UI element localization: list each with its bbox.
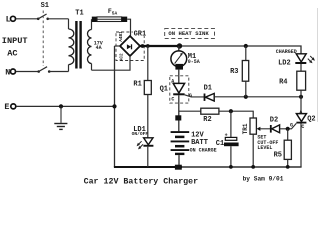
wire positive rail thick segment — [140, 45, 182, 47]
wire negative vertical line — [114, 46, 116, 167]
diode D1 — [204, 93, 215, 101]
resistor R4 — [297, 71, 306, 90]
svg-text:TR1: TR1 — [242, 123, 249, 134]
wire rail to M1 — [178, 46, 180, 51]
terminal N — [5, 68, 15, 78]
svg-text:R4: R4 — [279, 79, 287, 87]
svg-text:4A: 4A — [96, 45, 102, 51]
svg-text:E: E — [4, 102, 9, 112]
wire R1 to LD1 — [147, 95, 149, 138]
SCR Q2 — [296, 114, 306, 124]
wire L to switch — [16, 18, 38, 20]
svg-text:Car 12V Battery Charger: Car 12V Battery Charger — [84, 176, 199, 186]
svg-text:R2: R2 — [203, 116, 211, 124]
ammeter M1 — [171, 51, 187, 67]
wire R5 top — [287, 129, 289, 140]
resistor R3 — [242, 46, 248, 97]
svg-text:C: C — [301, 124, 304, 130]
svg-text:C1: C1 — [216, 140, 224, 148]
battery minus terminal pad — [175, 165, 182, 170]
bridge GR1 dashed box — [116, 32, 144, 61]
heat sink note box — [165, 29, 215, 39]
svg-text:ON CHARGE: ON CHARGE — [190, 148, 217, 154]
battery plus terminal pad — [175, 115, 181, 120]
svg-text:Q1: Q1 — [160, 86, 168, 94]
LED LD2 light arrows — [308, 56, 315, 63]
svg-text:R1: R1 — [133, 80, 141, 88]
wire C1 bottom to rail — [230, 146, 232, 167]
wire node to Q2 anode — [300, 97, 302, 114]
svg-text:AC: AC — [7, 48, 17, 58]
ground — [54, 106, 67, 129]
wire positive rail thin segment — [182, 46, 301, 54]
svg-text:GR1: GR1 — [134, 30, 147, 38]
wire M1 to Q1 — [178, 70, 180, 84]
svg-text:ON/OFF: ON/OFF — [132, 131, 149, 137]
svg-text:CHARGED: CHARGED — [276, 49, 297, 55]
wire Q1 gate to D1 — [185, 95, 204, 97]
junction C1 at rail — [229, 165, 233, 169]
wire rail to R1 — [147, 46, 149, 81]
trimmer TR1 — [250, 118, 270, 134]
terminal E — [4, 102, 15, 112]
switch S1 bottom pole — [37, 67, 50, 73]
svg-text:T1: T1 — [75, 10, 83, 18]
junction at R1 top — [146, 44, 150, 48]
bridge GR1 label — [133, 29, 150, 38]
svg-text:ON HEAT SINK: ON HEAT SINK — [168, 30, 209, 37]
wire R5 bottom to rail — [287, 159, 289, 167]
fuse F 5A label — [108, 8, 118, 16]
svg-text:INPUT: INPUT — [2, 36, 28, 46]
wire Q2 cathode to rail — [300, 124, 302, 168]
M1 bottom terminal pad — [175, 64, 183, 70]
faint scan border right — [317, 8, 319, 122]
value label 17V 4A — [94, 41, 103, 51]
label INPUT AC — [2, 36, 28, 58]
battery BATT — [171, 132, 190, 167]
svg-text:BATT: BATT — [191, 139, 208, 147]
wire Q1 cathode node to R2 — [179, 110, 201, 112]
SCR Q1 — [173, 83, 184, 95]
junction at bridge + corner — [141, 44, 145, 48]
svg-text:LEVEL: LEVEL — [257, 145, 272, 151]
transformer T1 primary winding — [69, 19, 74, 72]
diode D2 — [270, 125, 280, 133]
wire switch to transformer primary top — [48, 18, 69, 20]
svg-text:S1: S1 — [41, 2, 49, 10]
svg-text:LD2: LD2 — [278, 59, 291, 67]
svg-text:G: G — [290, 122, 293, 128]
junction at M1 top — [177, 43, 182, 48]
bridge rectifier GR1 diamond — [120, 36, 140, 56]
wire N to switch — [16, 71, 39, 73]
svg-text:D1: D1 — [204, 85, 212, 93]
svg-text:D2: D2 — [270, 117, 278, 125]
transformer T1 secondary winding — [88, 19, 92, 70]
junction at C1 top — [229, 109, 233, 113]
switch S1 top pole — [37, 14, 49, 20]
wire D2 anode to Q2 gate — [280, 123, 297, 128]
wire D1 anode to Q2 anode node — [214, 96, 301, 98]
terminal L — [6, 14, 16, 24]
LED LD2 — [295, 54, 306, 64]
svg-text:AC2: AC2 — [119, 53, 124, 61]
transformer T1 core — [75, 21, 82, 69]
wire switch to transformer primary bottom — [49, 71, 68, 73]
junction at R3 bottom — [244, 95, 248, 99]
wire C1 top — [230, 111, 232, 137]
svg-text:5A: 5A — [112, 10, 118, 16]
junction E wire with negative line — [112, 104, 116, 108]
switch S1 mechanical dashed link — [42, 11, 44, 67]
wire Q1 cathode to battery plus — [178, 95, 180, 131]
wire R4 bottom to node — [300, 90, 302, 97]
wire bridge left corner to ground line — [115, 45, 121, 47]
svg-text:0-5A: 0-5A — [188, 59, 200, 65]
wire LD1 to bottom rail — [147, 147, 149, 167]
wire TR1 bottom to rail — [252, 134, 254, 167]
note SET CUT-OFF LEVEL — [257, 135, 278, 151]
svg-text:Q2: Q2 — [307, 116, 315, 124]
svg-text:A4B1: A4B1 — [119, 31, 124, 42]
junction at R5 top — [286, 127, 290, 131]
resistor R5 — [284, 140, 291, 159]
capacitor C1 — [224, 137, 239, 146]
LED LD1 label — [132, 126, 149, 137]
wire bottom rail thick segment — [114, 166, 182, 168]
LED LD1 light arrows — [137, 141, 143, 149]
junction at R4 bottom / Q2 anode — [299, 95, 303, 99]
junction at R3 top — [244, 44, 248, 48]
svg-text:by Sam 9/01: by Sam 9/01 — [243, 176, 284, 183]
wire fuse to bridge top — [127, 19, 130, 36]
svg-text:R3: R3 — [230, 68, 238, 76]
SCR Q1 dashed box — [170, 76, 189, 103]
svg-text:N: N — [5, 68, 10, 78]
svg-text:R5: R5 — [274, 152, 282, 160]
resistor R1 — [144, 81, 151, 95]
bridge inner diode mark — [127, 44, 132, 49]
junction TR1 at rail — [251, 165, 255, 169]
svg-text:C: C — [171, 97, 174, 103]
junction at ground symbol — [59, 104, 63, 108]
ammeter M1 label — [188, 53, 200, 65]
fuse F — [92, 17, 127, 22]
wire E to negative line — [16, 105, 114, 107]
wire R2 to TR1 top — [219, 111, 253, 118]
battery label 12V BATT ON CHARGE — [190, 132, 217, 154]
LED LD1 — [143, 138, 153, 147]
resistor R2 — [201, 108, 219, 114]
junction R5 at rail — [286, 165, 290, 169]
wire bottom rail thin segment — [182, 166, 302, 168]
wire bridge bottom corner to secondary bottom — [92, 56, 131, 70]
wire LD2 to R4 — [300, 64, 302, 71]
